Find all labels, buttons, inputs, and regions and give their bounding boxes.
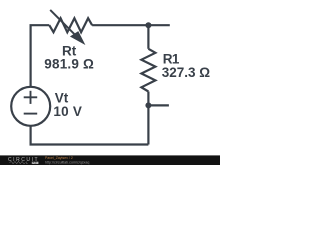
svg-text:327.3 Ω: 327.3 Ω bbox=[162, 65, 211, 80]
svg-text:10 V: 10 V bbox=[53, 104, 82, 119]
svg-text:981.9 Ω: 981.9 Ω bbox=[44, 57, 94, 72]
svg-text:L: L bbox=[26, 161, 28, 165]
svg-text:http://circuitlab.com/c/qsxaq: http://circuitlab.com/c/qsxaq bbox=[45, 161, 89, 165]
svg-text:AB: AB bbox=[32, 161, 36, 165]
